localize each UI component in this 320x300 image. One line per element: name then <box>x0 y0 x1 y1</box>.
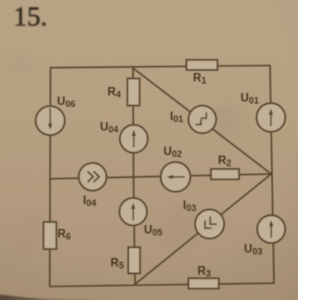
svg-text:15.: 15. <box>14 2 48 32</box>
svg-text:21.: 21. <box>8 52 36 77</box>
